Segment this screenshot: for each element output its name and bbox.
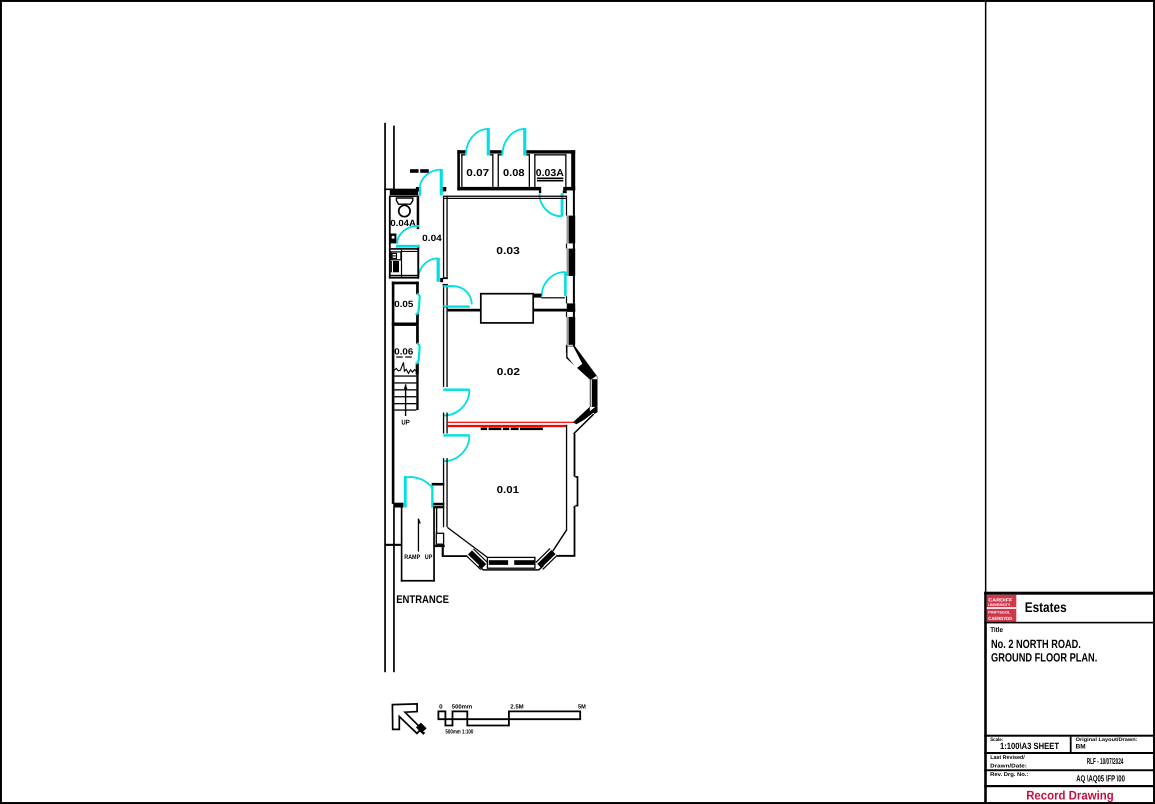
svg-text:5M: 5M: [578, 704, 586, 711]
wall stub above entrance: [432, 483, 445, 486]
door D3 leaf: [437, 258, 440, 282]
room 0.04A threshold: [391, 248, 420, 250]
east wall outer line: [573, 190, 575, 352]
room 0.04A top interior line: [391, 196, 417, 197]
bay01 front window frame: [487, 557, 535, 568]
north arrow tail: [416, 723, 427, 734]
door 0.06 squiggle: [416, 344, 420, 364]
scale row top line: [984, 735, 1154, 737]
room 0.02 north wall right: [533, 309, 575, 312]
room 0.04A east wall upper: [417, 196, 420, 230]
west column wall (0.05/0.06/stairs): [392, 282, 395, 504]
svg-text:BM: BM: [1076, 743, 1086, 750]
porch inner east line: [436, 508, 437, 534]
svg-text:Drawn/Date:: Drawn/Date:: [990, 764, 1027, 770]
svg-text:2.5M: 2.5M: [510, 704, 523, 711]
divider wall 0.05/0.06: [392, 323, 419, 326]
east wall inner face segments: [566, 196, 567, 216]
porch east wall: [433, 508, 435, 582]
bay02 window east vertical: [590, 379, 598, 407]
wire connector at porch: [385, 544, 402, 546]
porch south wall: [401, 580, 435, 582]
room 0.06 east wall upper: [416, 326, 419, 344]
room 0.01 east inner line: [566, 425, 567, 530]
bay01 inner diagonal: [448, 528, 488, 558]
bay02 lower diagonal window: [573, 407, 598, 424]
stair top treads partial: [396, 356, 403, 357]
room 0.04A south lines: [389, 275, 419, 276]
svg-text:ENTRANCE: ENTRANCE: [396, 594, 449, 606]
wall junction block east: [567, 303, 575, 312]
svg-text:PRIFYSGOL: PRIFYSGOL: [988, 610, 1011, 614]
scale row divider: [1070, 737, 1072, 752]
door B arc: [444, 390, 470, 416]
room 0.01 east inner diagonal: [552, 530, 567, 552]
svg-text:Record Drawing: Record Drawing: [1026, 788, 1114, 802]
door C leaf: [443, 434, 470, 436]
sink counter edge: [401, 250, 402, 277]
wall right of door D1: [440, 187, 446, 191]
svg-text:0.05: 0.05: [394, 299, 413, 309]
wire connector top-left: [384, 189, 395, 191]
svg-text:Title: Title: [990, 626, 1003, 634]
room 0.02 north wall left: [448, 309, 481, 312]
scale bar stepped outline: [438, 711, 580, 719]
toilet bowl: [399, 205, 410, 216]
title block top bar: [984, 592, 1154, 595]
opening dash 1: [410, 169, 419, 173]
bay01 plinth line: [479, 566, 544, 570]
room 0.08 box: [498, 154, 499, 187]
bay01 front glazing bars: [489, 560, 508, 565]
sink unit: [391, 261, 399, 272]
wall stub right of chimney: [533, 294, 541, 298]
svg-text:UP: UP: [401, 419, 410, 426]
entrance step box: [436, 533, 443, 544]
svg-text:1:100\A3 SHEET: 1:100\A3 SHEET: [1000, 741, 1059, 751]
entrance door leaf: [404, 476, 407, 508]
red partition thin line: [448, 422, 575, 423]
svg-text:UNIVERSITY: UNIVERSITY: [988, 603, 1011, 607]
sink counter box: [391, 252, 401, 260]
door B leaf: [443, 389, 470, 391]
door 0.08 leaf: [523, 128, 526, 155]
door 0.04A arc: [397, 226, 419, 244]
svg-text:500mm: 500mm: [452, 704, 472, 711]
title block separator line: [985, 2, 987, 592]
bay02 lower connector outer: [574, 414, 594, 434]
door A segment: [443, 285, 453, 287]
porch west wall: [401, 508, 403, 582]
window W3 east: [567, 317, 575, 345]
door D3 arc: [418, 258, 438, 279]
svg-text:Original Layout/Drawn:: Original Layout/Drawn:: [1076, 737, 1138, 743]
porch wall stub thick: [393, 503, 403, 508]
svg-text:RLF - 10/07/2024: RLF - 10/07/2024: [1087, 756, 1124, 766]
bay01 diagonal window left: [470, 552, 484, 566]
svg-text:0.08: 0.08: [503, 168, 525, 179]
door 0.05 squiggle: [416, 294, 420, 315]
corridor east wall segment 3 (0.02 west): [443, 307, 444, 387]
entrance door tick: [431, 486, 433, 508]
window W1 east: [567, 216, 575, 244]
opening dash 2: [420, 169, 429, 173]
row line 2: [984, 752, 1154, 754]
bay02 upper channel white wall part: [568, 346, 583, 368]
room 0.05 north wall: [392, 282, 419, 285]
bay02 upper channel white wedge: [592, 376, 598, 380]
room 0.04A east wall lower: [417, 247, 419, 277]
door 0.07 arc: [466, 129, 488, 155]
svg-text:AQ \AQ05 \FP \00: AQ \AQ05 \FP \00: [1076, 773, 1125, 783]
stair arrow head: [404, 384, 408, 389]
svg-text:Rev. Drg. No.:: Rev. Drg. No.:: [990, 772, 1028, 778]
svg-text:0.02: 0.02: [497, 367, 521, 378]
room 0.01 south-east outer corner: [553, 555, 575, 557]
top row outer wall north: [457, 150, 465, 153]
ramp arrow barb: [418, 519, 420, 524]
door 0.04A leaf: [396, 245, 420, 248]
row line 4: [984, 785, 1154, 787]
row line 3: [984, 769, 1154, 771]
stair center rail: [405, 384, 406, 416]
svg-text:0.01: 0.01: [497, 485, 520, 496]
room 0.06 east wall lower black fill: [416, 363, 419, 374]
door D1 tick: [419, 187, 421, 196]
door A arc: [454, 286, 472, 304]
bay01 west wall thick: [435, 545, 445, 547]
door D1 arc: [420, 170, 442, 188]
svg-text:0.03A: 0.03A: [536, 168, 564, 179]
threshold line east doorway: [541, 297, 565, 298]
room 0.05 east wall upper: [416, 282, 419, 295]
svg-text:0.06: 0.06: [394, 346, 413, 356]
svg-text:UP: UP: [425, 554, 433, 561]
svg-text:No. 2 NORTH ROAD.: No. 2 NORTH ROAD.: [991, 637, 1081, 651]
svg-text:0.03: 0.03: [496, 246, 520, 257]
svg-text:Estates: Estates: [1025, 599, 1067, 615]
boundary line west long: [384, 123, 386, 672]
door C arc: [444, 435, 470, 461]
wall band east of porch: [433, 503, 444, 506]
window W2 east: [567, 249, 575, 276]
room 0.01 west wall: [443, 458, 444, 527]
room 0.03A box: [534, 154, 535, 187]
toilet cistern: [396, 198, 412, 204]
door D3 jamb: [440, 278, 443, 282]
stair east wall: [416, 375, 418, 410]
room 0.05 east wall lower: [416, 314, 419, 323]
door D1 leaf: [440, 169, 443, 195]
bay01 outer wall west horizontal: [444, 555, 469, 557]
wall stub between doors B C: [443, 413, 444, 434]
room 0.04A west wall: [389, 196, 391, 279]
room 0.01 east outer wall: [574, 434, 576, 477]
svg-text:CAERDYDD: CAERDYDD: [988, 616, 1013, 621]
door A leaf: [443, 305, 470, 307]
room 0.03 north wall: [444, 196, 566, 197]
university logo red block: [987, 595, 1017, 623]
cistern box: [390, 234, 396, 244]
top row wall south: [457, 187, 541, 191]
door A jamb ticks: [443, 277, 448, 279]
svg-text:0.04: 0.04: [422, 233, 442, 243]
room 0.03A door jamb step: [563, 190, 567, 193]
wall jamb left of door D1: [416, 187, 421, 191]
bay01 inner diagonal right: [553, 530, 567, 551]
entrance door arc: [406, 477, 433, 489]
chimney breast: [481, 294, 533, 323]
svg-text:0.07: 0.07: [466, 168, 489, 179]
top row outer wall west: [457, 150, 460, 190]
room 0.03A label underline: [537, 178, 563, 180]
door 0.03 SE leaf: [564, 272, 567, 296]
door 0.03A arc: [540, 194, 562, 216]
wall 0.04A north thick: [390, 189, 418, 196]
svg-text:CARDIFF: CARDIFF: [988, 598, 1012, 603]
corridor east wall upper (0.03 west): [443, 196, 444, 277]
room 0.01 east bump: [575, 477, 577, 506]
red partition thick line: [448, 425, 567, 427]
top row outer wall east: [571, 150, 575, 190]
svg-text:GROUND FLOOR PLAN.: GROUND FLOOR PLAN.: [991, 650, 1097, 664]
door 0.08 arc: [502, 129, 524, 155]
stair treads: [394, 375, 416, 376]
room 0.07 box: [461, 154, 462, 187]
door 0.03A leaf: [561, 193, 564, 216]
partition dashes: [481, 428, 487, 431]
boundary line 2 upper: [393, 126, 395, 189]
door 0.07 leaf: [487, 128, 490, 155]
north arrow outline: [392, 704, 421, 734]
svg-text:RAMP: RAMP: [404, 554, 421, 561]
stair break line: [394, 362, 416, 373]
bay02 upper diagonal channel: [566, 346, 597, 380]
corridor east wall segment 2: [443, 286, 444, 307]
door 0.03 SE arc: [542, 272, 566, 296]
svg-text:Last Revised/: Last Revised/: [990, 755, 1025, 761]
ramp arrow shaft: [418, 519, 419, 552]
line under logo: [984, 622, 1154, 624]
boundary line 2 lower: [393, 508, 395, 673]
svg-text:500mm 1:100: 500mm 1:100: [445, 729, 473, 736]
title block left border: [984, 592, 987, 803]
bay01 diagonal window right: [539, 552, 553, 566]
